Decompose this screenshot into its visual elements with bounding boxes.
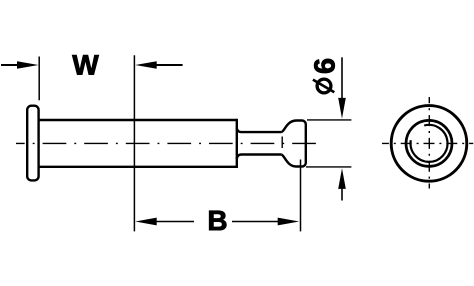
cone start tick [281,137,283,149]
B right arrowhead [278,218,300,226]
dia6 top extension line [307,119,351,121]
W left arrowhead [17,61,39,69]
B dimension line left [156,221,194,223]
label W [72,55,98,74]
W left arrow line [1,64,18,66]
shaft bottom line [39,166,237,168]
shaft top line [39,119,237,121]
end view middle circle [406,120,452,166]
dia6 dimension line bottom [341,189,343,201]
W right arrowhead [135,61,157,69]
end view inner thread arc [411,125,448,162]
end view outer circle [391,106,467,182]
shaft end line [236,119,238,168]
centerline side view [16,142,319,144]
B left arrowhead [135,218,157,226]
dia6 bottom extension line [306,166,351,168]
neck top profile [237,128,281,132]
label dia6 digit 6 [314,59,335,73]
flat head [27,106,38,181]
end view horizontal centerline [382,142,473,144]
cone head outline [281,121,306,167]
dia6 bottom arrowhead [338,168,346,189]
W/B shared feature line [133,55,135,231]
B dimension line right [232,221,278,223]
W right arrow line [156,64,183,66]
dia6 top arrowhead [338,98,346,119]
label B [209,211,226,230]
end view vertical centerline [428,97,430,189]
label dia6 O circle [317,79,331,93]
W left extension line [38,57,40,101]
dia6 dimension line top [341,57,343,99]
B right extension line [300,160,302,232]
neck bottom profile [237,155,281,159]
label dia6 slash [313,80,334,93]
